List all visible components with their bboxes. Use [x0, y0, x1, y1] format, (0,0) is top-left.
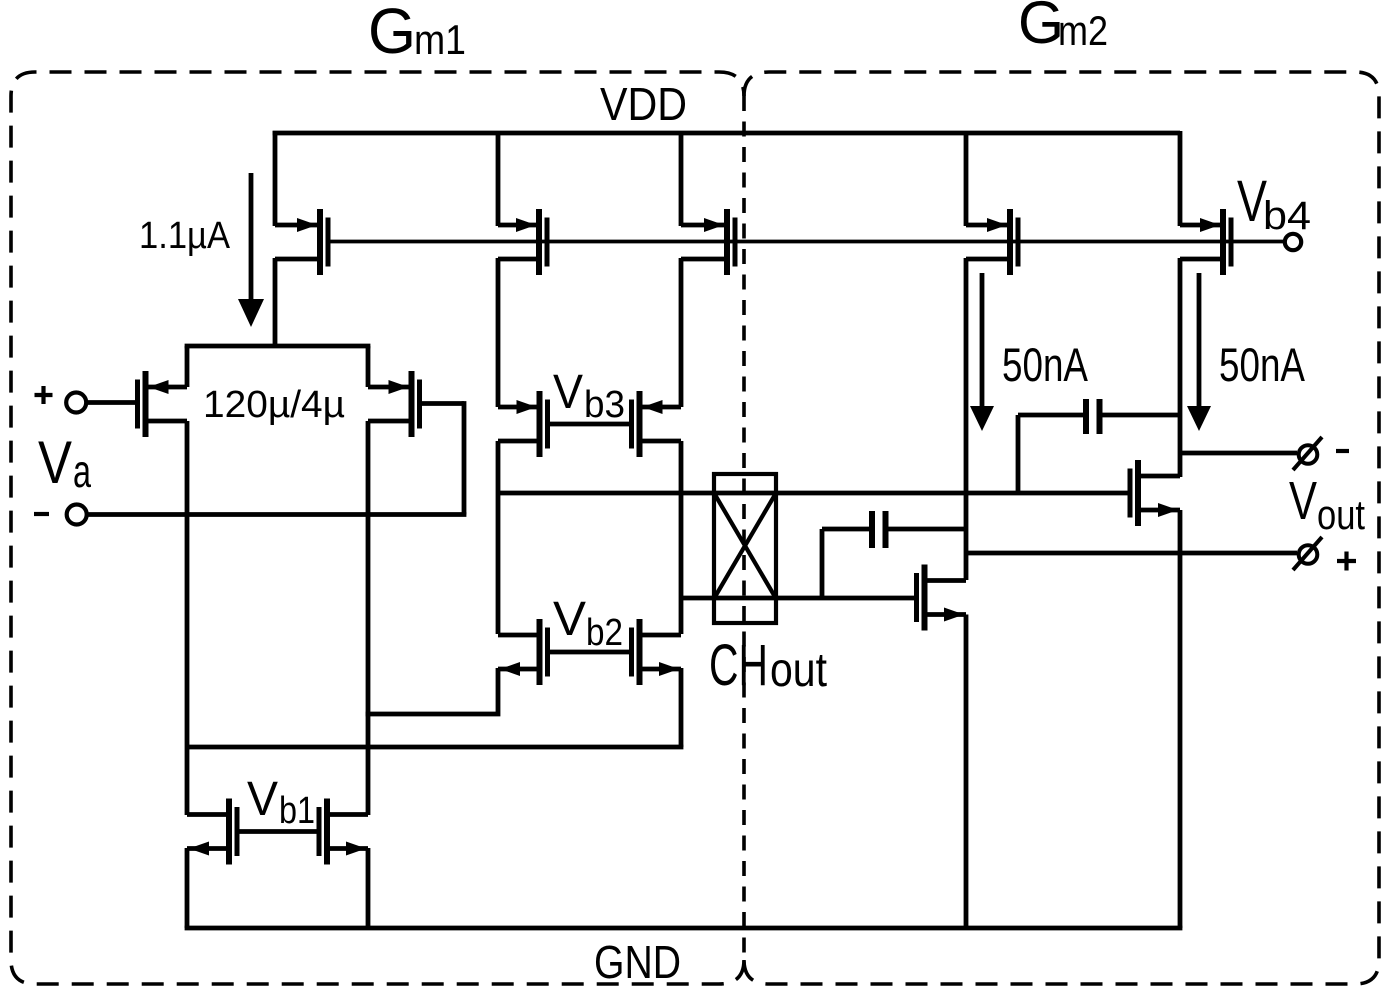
wire M13 source to GND	[366, 848, 371, 928]
wire M1 source to VDD	[273, 131, 278, 226]
svg-text:b3: b3	[584, 384, 625, 426]
label CHout	[709, 633, 827, 698]
wire output phi+ line	[966, 551, 1297, 556]
label 1.1uA	[139, 215, 231, 257]
svg-text:120µ/4µ: 120µ/4µ	[203, 384, 345, 426]
transistor M12 (NMOS Vb1 left)	[187, 799, 237, 865]
wire chopper bottom line (right branch to M14 gate)	[681, 596, 916, 601]
wire Vb3 gate link	[548, 422, 632, 427]
divider dashed line between Gm1 and Gm2	[742, 96, 746, 960]
svg-text:m2: m2	[1058, 7, 1108, 54]
svg-text:V: V	[1289, 471, 1317, 531]
wire bottom node line	[187, 745, 683, 750]
wire M7 gate lead	[420, 401, 465, 406]
transistor M3 (mirror PMOS)	[681, 209, 735, 275]
svg-text:V: V	[247, 773, 278, 826]
transistor M11 (cascode NMOS Vb2 right)	[632, 619, 682, 685]
wire diff box right edge	[366, 346, 371, 387]
wire output phi- line	[1180, 451, 1297, 456]
label Vb2	[553, 593, 623, 654]
wire M2 source to VDD	[496, 131, 501, 226]
svg-text:b1: b1	[279, 790, 315, 832]
wire right branch vertical (M9 drain to M11 drain)	[679, 441, 684, 634]
terminal + input circle	[66, 393, 86, 413]
svg-text:GND: GND	[594, 936, 681, 988]
svg-text:CH: CH	[709, 633, 768, 698]
current arrow 50nA right	[1187, 273, 1211, 431]
label VDD	[600, 78, 687, 130]
svg-text:out: out	[770, 644, 827, 697]
enclosure Gm1 (dashed box)	[11, 72, 744, 984]
wire M2 drain vertical	[496, 258, 501, 407]
svg-text:V: V	[38, 429, 72, 496]
label - (minus)	[34, 512, 49, 516]
wire M3 source to VDD	[679, 131, 684, 226]
wire M5 source to VDD	[1178, 131, 1183, 226]
wire diff right drain vertical	[366, 421, 371, 815]
wire M4 source to VDD	[964, 131, 969, 226]
svg-text:b4: b4	[1263, 194, 1311, 238]
svg-text:VDD: VDD	[600, 78, 687, 130]
wire diff left drain vertical	[185, 421, 190, 815]
wire M1 drain to diff-pair tail	[273, 258, 278, 348]
chopper CHout box	[714, 474, 776, 623]
wire chopper top line (left branch to M15 gate)	[498, 491, 1130, 496]
wire M3 drain vertical	[679, 258, 684, 407]
label Vb3	[553, 366, 625, 426]
transistor M15 (output NMOS upper-right)	[1130, 460, 1180, 526]
label Gm1	[368, 0, 466, 67]
wire C2 left lead down to gate line	[820, 529, 825, 598]
svg-text:50nA: 50nA	[1219, 338, 1305, 391]
svg-text:V: V	[553, 593, 586, 646]
svg-text:m1: m1	[414, 16, 466, 63]
transistor M7 (input PMOS -)	[368, 371, 420, 437]
current arrow 1.1uA	[238, 173, 264, 327]
transistor M14 (output NMOS lower-left)	[917, 565, 967, 631]
wire C1 left lead down to gate line	[1016, 415, 1021, 493]
label 120u/4u	[203, 384, 345, 426]
transistor M2 (mirror PMOS)	[498, 209, 547, 275]
label Va	[38, 429, 91, 497]
transistor M13 (NMOS Vb1 right)	[319, 799, 368, 865]
label 50nA left	[1002, 338, 1088, 391]
wire diff box left edge	[185, 346, 190, 387]
terminal phi+ symbol	[1293, 537, 1322, 570]
svg-text:a: a	[73, 445, 91, 497]
label Gm2	[1018, 0, 1108, 56]
gate bias line (top PMOS mirror row)	[328, 240, 1285, 244]
svg-text:out: out	[1317, 491, 1365, 538]
VDD rail	[273, 131, 1180, 136]
terminal - input circle	[67, 505, 87, 525]
wire M11 source vertical	[679, 668, 684, 747]
wire M10 source to diff right drain	[366, 668, 498, 714]
wire M7 gate vertical	[462, 401, 467, 514]
label 50nA right	[1219, 338, 1305, 391]
label Vb1	[247, 773, 315, 832]
svg-text:50nA: 50nA	[1002, 338, 1088, 391]
wire Vb1 gate link	[237, 829, 319, 834]
terminal Vb4	[1285, 234, 1301, 250]
wire M4 drain vertical	[964, 258, 969, 580]
wire M5 drain vertical	[1178, 258, 1183, 453]
current arrow 50nA left	[970, 273, 994, 431]
capacitor C2 (lower)	[822, 511, 966, 548]
svg-text:G: G	[368, 0, 416, 67]
wire M15 source to GND	[1178, 510, 1183, 928]
label + at phi+	[1337, 552, 1356, 571]
wire left branch vertical (M8 drain to M10 drain)	[496, 441, 501, 634]
terminal phi- symbol	[1293, 437, 1322, 470]
label - at phi-	[1336, 449, 1349, 453]
transistor M1 (1.1uA bias PMOS)	[275, 209, 328, 275]
wire M12 source to GND	[185, 848, 190, 928]
transistor M6 (input PMOS +)	[138, 371, 188, 437]
capacitor C1 (upper)	[1018, 399, 1180, 434]
label + (plus)	[35, 386, 53, 404]
GND rail	[185, 926, 1183, 931]
label Vout	[1289, 471, 1365, 538]
label GND	[594, 936, 681, 988]
transistor M5 (Gm2 mirror PMOS right)	[1180, 209, 1231, 275]
svg-text:V: V	[553, 366, 583, 419]
wire diff-pair tail box top	[185, 344, 371, 349]
chopper CHout cross	[714, 493, 776, 599]
transistor M9 (cascode PMOS Vb3 right)	[632, 391, 682, 457]
wire M15 drain vertical	[1178, 453, 1183, 477]
wire - input line	[86, 512, 466, 517]
transistor M4 (Gm2 mirror PMOS left)	[966, 209, 1018, 275]
wire M14 source to GND	[964, 615, 969, 929]
transistor M8 (cascode PMOS Vb3 left)	[498, 391, 548, 457]
svg-text:b2: b2	[586, 612, 623, 654]
label Vb4	[1237, 169, 1311, 238]
wire Vb2 gate link	[548, 650, 632, 655]
svg-text:1.1µA: 1.1µA	[139, 215, 231, 257]
enclosure Gm2 (dashed box)	[744, 72, 1379, 984]
wire + input to gate	[86, 400, 136, 405]
transistor M10 (cascode NMOS Vb2 left)	[498, 619, 548, 685]
